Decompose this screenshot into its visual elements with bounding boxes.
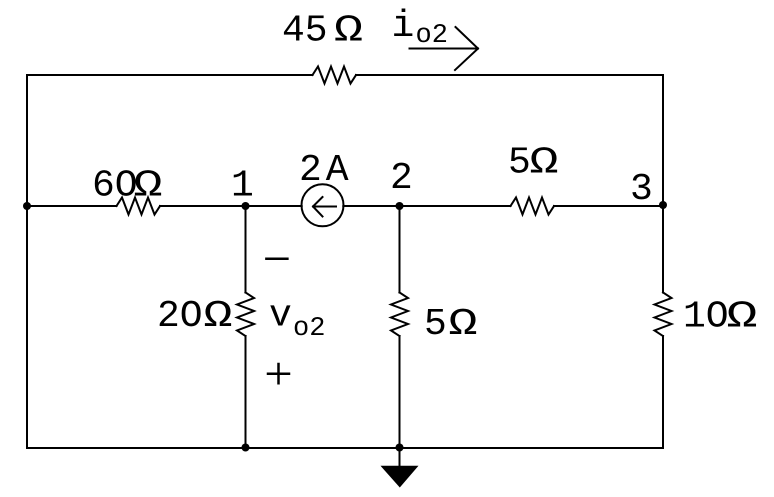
wire left vertical side [26, 75, 28, 448]
svg-text:2O: 2O [157, 295, 203, 338]
resistor 60Ω zigzag [117, 198, 161, 215]
svg-text:5: 5 [508, 142, 531, 185]
svg-text:2: 2 [390, 157, 413, 200]
resistor 20Ω zigzag (vertical) [237, 293, 254, 337]
current source U1 circle (2A) [302, 184, 344, 226]
svg-text:6O: 6O [92, 165, 138, 208]
wire top-right segment of top loop [356, 74, 663, 76]
svg-text:Ω: Ω [204, 295, 233, 338]
resistor 10Ω zigzag (vertical, right side) [655, 293, 672, 337]
wire middle: left edge to 60Ω [27, 205, 117, 207]
wire branch node 2 down to 5Ω [399, 206, 401, 293]
ground stub wire [399, 448, 401, 467]
svg-text:1: 1 [231, 165, 254, 208]
ground symbol triangle [381, 466, 419, 488]
wire middle: node 2 to 5Ω [400, 205, 511, 207]
wire middle: current source to node 2 [343, 205, 399, 207]
wire top-left segment of top loop [27, 74, 313, 76]
wire middle: 5Ω to node 3 [554, 205, 663, 207]
wire branch 5Ω down to bottom rail [399, 336, 401, 448]
plus sign of v_o2 [268, 364, 289, 383]
svg-text:3: 3 [630, 168, 653, 211]
junction dot bottom of node 2 branch [396, 444, 404, 452]
svg-text:Ω: Ω [334, 10, 363, 53]
svg-text:Ω: Ω [727, 296, 758, 339]
node 1 junction dot [242, 202, 250, 210]
svg-text:Ω: Ω [530, 142, 559, 185]
wire middle: node 1 to current source [246, 205, 302, 207]
svg-text:o2: o2 [416, 21, 448, 51]
minus sign of v_o2 [266, 258, 287, 261]
svg-text:i: i [392, 5, 415, 48]
resistor 5Ω zigzag (between node 2 and 3) [511, 198, 555, 215]
resistor 45Ω zigzag (top branch) [313, 67, 357, 84]
svg-text:v: v [269, 295, 292, 338]
wire bottom rail [27, 447, 663, 449]
wire branch node 1 down to 20Ω [245, 206, 247, 293]
svg-text:2A: 2A [299, 149, 353, 192]
junction dot bottom of 20Ω branch [242, 444, 250, 452]
wire branch 20Ω down to bottom rail [245, 336, 247, 448]
svg-text:Ω: Ω [449, 303, 478, 346]
wire right vertical upper (top wire to node 3) [662, 75, 664, 206]
svg-text:Ω: Ω [134, 165, 163, 208]
svg-text:o2: o2 [293, 314, 325, 344]
wire right vertical: node 3 down to 10Ω [662, 206, 664, 293]
node junction dot: left middle [23, 202, 31, 210]
svg-text:45: 45 [282, 10, 328, 53]
svg-text:5: 5 [424, 303, 447, 346]
node 2 junction dot [396, 202, 404, 210]
wire middle: 60Ω to node 1 [160, 205, 246, 207]
arrow for current i_o2 [410, 27, 479, 70]
resistor 5Ω zigzag (vertical, node 2 branch) [391, 293, 408, 337]
current source arrow (points left) [313, 197, 336, 217]
node 3 junction dot [659, 201, 667, 209]
svg-text:1O: 1O [683, 296, 729, 339]
wire right vertical: 10Ω down to bottom rail [662, 336, 664, 448]
